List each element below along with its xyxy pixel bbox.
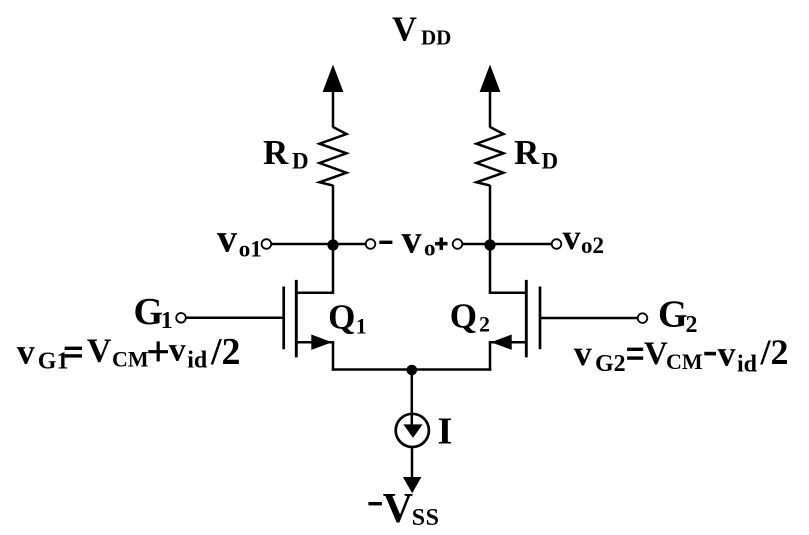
svg-text:o1: o1 (239, 237, 262, 262)
svg-text:v: v (217, 215, 237, 260)
svg-text:G: G (658, 294, 688, 336)
svg-text:1: 1 (161, 308, 173, 334)
svg-text:Q: Q (328, 297, 355, 336)
svg-text:1: 1 (356, 314, 367, 339)
svg-text:Q: Q (450, 296, 477, 335)
svg-text:v: v (169, 331, 186, 368)
svg-text:v: v (17, 331, 35, 371)
svg-text:R: R (514, 133, 540, 172)
svg-text:CM: CM (112, 347, 149, 372)
svg-text:o: o (424, 235, 436, 260)
svg-text:D: D (292, 149, 309, 174)
svg-text:V: V (392, 11, 417, 49)
svg-text:V: V (644, 336, 668, 372)
svg-text:v: v (563, 217, 581, 257)
svg-text:2: 2 (479, 312, 490, 337)
svg-text:D: D (542, 149, 559, 174)
svg-text:CM: CM (666, 349, 703, 374)
svg-text:I: I (438, 411, 453, 453)
svg-text:G1: G1 (38, 349, 69, 375)
svg-text:o2: o2 (581, 233, 604, 258)
svg-text:/2: /2 (210, 331, 241, 373)
svg-text:SS: SS (412, 505, 440, 531)
svg-text:G: G (134, 291, 164, 333)
svg-text:V: V (87, 332, 112, 369)
svg-text:G2: G2 (595, 351, 626, 377)
svg-text:2: 2 (686, 312, 698, 338)
svg-text:v: v (718, 334, 736, 374)
svg-text:/2: /2 (760, 332, 789, 372)
svg-text:R: R (263, 133, 289, 172)
svg-text:DD: DD (421, 25, 451, 49)
svg-text:V: V (383, 486, 413, 532)
svg-text:id: id (187, 348, 208, 374)
svg-text:v: v (574, 333, 592, 373)
svg-text:v: v (402, 216, 422, 261)
svg-text:id: id (737, 352, 758, 378)
